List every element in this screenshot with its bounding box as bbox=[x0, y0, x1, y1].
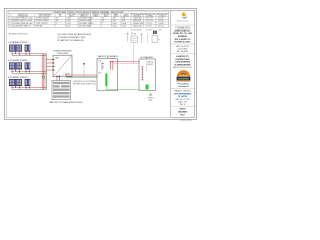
svg-text:GND: GND bbox=[143, 98, 146, 100]
svg-text:SYSTEM W/ ESS: SYSTEM W/ ESS bbox=[175, 59, 190, 61]
svg-text:ACME SOLAR LLC: ACME SOLAR LLC bbox=[174, 30, 191, 33]
junction node J1 bbox=[83, 63, 85, 78]
svg-text:3/4": 3/4" bbox=[102, 20, 105, 22]
sheet block bbox=[178, 109, 187, 117]
table header text bbox=[9, 13, 169, 16]
svg-text:● PV ARRAY STRING 1: ● PV ARRAY STRING 1 bbox=[8, 41, 28, 44]
backup interface red breakers bbox=[110, 61, 114, 70]
backup interface breaker bbox=[102, 62, 104, 70]
conductor schedule table bbox=[8, 11, 169, 27]
inverter input arrows bbox=[53, 59, 55, 71]
PV string 3 panel group A bbox=[9, 79, 22, 86]
title block border bbox=[171, 11, 195, 118]
AC wires inverter to backup interface bbox=[66, 74, 97, 76]
svg-text:PHONE: 555 - 123 - 4567: PHONE: 555 - 123 - 4567 bbox=[173, 32, 192, 35]
main panel breaker column bbox=[141, 66, 143, 81]
svg-text:⇅: ⇅ bbox=[131, 33, 133, 36]
svg-text:PHOENIX, AZ 85001: PHOENIX, AZ 85001 bbox=[175, 40, 191, 43]
title block divider 5 bbox=[171, 106, 195, 108]
svg-text:3/4": 3/4" bbox=[56, 18, 59, 20]
ground wire to main panel bbox=[106, 89, 147, 91]
svg-text:PE #45782: PE #45782 bbox=[178, 95, 187, 98]
svg-text:5 FT 0.1%: 5 FT 0.1% bbox=[146, 23, 154, 25]
svg-text:0.22%: 0.22% bbox=[67, 25, 72, 27]
ground symbol bbox=[147, 98, 153, 101]
main panel ground bar bbox=[146, 85, 149, 90]
utility drop wire bbox=[133, 44, 135, 64]
svg-text:7.5KW INVERTER: 7.5KW INVERTER bbox=[175, 62, 191, 64]
drawing frame inner bbox=[6, 11, 194, 118]
ground wire to backup interface bbox=[66, 77, 105, 79]
legend symbol: service panel bbox=[152, 31, 161, 43]
svg-text:CONDUIT AND CONDUCTOR SCHEDULE: CONDUIT AND CONDUCTOR SCHEDULE WIRING DI… bbox=[52, 11, 124, 14]
PV string 1 panel group B bbox=[25, 45, 31, 52]
svg-text:Professional: Professional bbox=[178, 86, 189, 88]
title block divider 2 bbox=[171, 43, 195, 45]
svg-text:7.5KW (48V): 7.5KW (48V) bbox=[57, 53, 69, 55]
string 1 wiring bbox=[11, 52, 46, 56]
svg-text:ROD: ROD bbox=[154, 98, 157, 100]
backup interface box bbox=[97, 59, 118, 91]
svg-text:120/240V: 120/240V bbox=[147, 64, 153, 66]
contractor label box bbox=[176, 26, 190, 29]
legend symbol: utility meter bbox=[131, 33, 137, 43]
svg-text:0.42%: 0.42% bbox=[67, 18, 72, 20]
inverter AC output terminal bbox=[65, 74, 66, 75]
table row 2 bbox=[9, 19, 165, 22]
svg-text:(ROOF RUN): (ROOF RUN) bbox=[133, 16, 141, 18]
svg-text:BACKUP INTERFACE: BACKUP INTERFACE bbox=[98, 55, 119, 58]
AC wires backup interface to main panel bbox=[111, 61, 139, 63]
title block divider 4 bbox=[171, 88, 195, 90]
svg-text:90 C DC: 90 C DC bbox=[158, 25, 165, 27]
PV string 2 panel group B bbox=[25, 62, 31, 69]
svg-text:1: 1 bbox=[9, 18, 10, 20]
main service panel box bbox=[139, 59, 156, 91]
project info bbox=[176, 45, 189, 53]
main panel feeder wire bbox=[146, 64, 148, 71]
svg-text:4 FT 0.1%: 4 FT 0.1% bbox=[146, 25, 154, 27]
svg-text:2" EMT CONDUIT: 2" EMT CONDUIT bbox=[36, 23, 48, 25]
table row 4 bbox=[9, 24, 165, 27]
svg-text:(16) JINKO 400W SOLAR MODULES: (16) JINKO 400W SOLAR MODULES bbox=[58, 33, 92, 36]
ground node on bus bbox=[42, 76, 44, 78]
svg-text:4521 W DESERT LN: 4521 W DESERT LN bbox=[175, 38, 192, 41]
equipment notes bbox=[58, 33, 92, 42]
svg-text:UTILITY METER: UTILITY METER bbox=[131, 29, 141, 31]
table header second line bbox=[17, 15, 165, 18]
NABCEP badge bbox=[177, 70, 191, 81]
inverter DC output terminals bbox=[56, 76, 57, 77]
svg-text:2: 2 bbox=[9, 20, 10, 22]
svg-text:DIAGRAM: DIAGRAM bbox=[178, 110, 187, 113]
svg-text:● PV ARRAY STRING 2: ● PV ARRAY STRING 2 bbox=[8, 59, 28, 62]
battery storage bbox=[52, 81, 71, 100]
ground wire up into panel bbox=[146, 89, 148, 91]
company logo swoosh bbox=[181, 16, 187, 18]
svg-text:(1) BATTERY STORAGE 48V: (1) BATTERY STORAGE 48V bbox=[58, 39, 85, 42]
svg-text:3: 3 bbox=[9, 23, 10, 25]
svg-text:14.3KWH BATTERY: 14.3KWH BATTERY bbox=[174, 63, 191, 66]
svg-text:PER MFR SPEC SHEET PV-3: PER MFR SPEC SHEET PV-3 bbox=[73, 84, 96, 86]
svg-text:4: 4 bbox=[9, 25, 10, 27]
inverter to battery wires bbox=[56, 77, 58, 81]
svg-text:SunPowerCo: SunPowerCo bbox=[177, 20, 188, 23]
svg-text:ADDRESS: ADDRESS bbox=[178, 35, 188, 38]
svg-text:● PV ARRAY STRING 3: ● PV ARRAY STRING 3 bbox=[8, 76, 28, 79]
contractor info bbox=[173, 30, 192, 44]
bus ground wire bbox=[43, 73, 45, 80]
svg-text:25 FT 0.4%: 25 FT 0.4% bbox=[146, 18, 154, 20]
legend symbol: riser bbox=[140, 33, 142, 43]
svg-text:3/4": 3/4" bbox=[102, 18, 105, 20]
svg-text:0.31%: 0.31% bbox=[67, 23, 72, 25]
svg-text:3/4": 3/4" bbox=[56, 20, 59, 22]
svg-text:BUS: BUS bbox=[98, 73, 101, 75]
PV string 2 panel group A bbox=[9, 62, 22, 69]
string 2 wiring bbox=[11, 69, 46, 73]
PV string 1 panel group A bbox=[9, 45, 22, 52]
svg-text:(CONT): (CONT) bbox=[114, 16, 119, 18]
DC bus wires bbox=[42, 54, 46, 90]
table row 3 bbox=[9, 22, 165, 25]
hybrid inverter U1 bbox=[53, 55, 72, 77]
title block divider 3 bbox=[171, 53, 195, 55]
svg-text:CONTRACTOR: CONTRACTOR bbox=[177, 27, 190, 30]
svg-text:WIRING: WIRING bbox=[180, 109, 187, 111]
table row 1 bbox=[9, 17, 165, 20]
svg-text:3/4" EMT CONDUIT: 3/4" EMT CONDUIT bbox=[36, 18, 50, 20]
svg-text:REV: B: REV: B bbox=[180, 104, 185, 106]
svg-text:CERTIFIED: CERTIFIED bbox=[178, 79, 189, 81]
svg-text:0.65%: 0.65% bbox=[67, 20, 72, 22]
string 3 wiring bbox=[11, 86, 46, 89]
company logo sun bbox=[182, 12, 186, 16]
PV string 3 panel group B bbox=[25, 79, 31, 86]
svg-text:BATTERY STORAGE(LIFEPO4 48V): BATTERY STORAGE(LIFEPO4 48V) bbox=[50, 101, 83, 104]
title block divider 1 bbox=[171, 24, 195, 26]
inverter input wires bbox=[46, 60, 53, 71]
drawn by block bbox=[174, 89, 192, 106]
svg-text:(EGC / GEC SIZE): (EGC / GEC SIZE) bbox=[39, 16, 50, 18]
svg-text:6.40KW DC PV: 6.40KW DC PV bbox=[176, 55, 189, 58]
legend labels bbox=[131, 28, 162, 31]
ground bar to bottom wire bbox=[105, 86, 107, 90]
grounding electrode conductor bbox=[149, 91, 151, 98]
svg-text:PV-WD-04.DWG: PV-WD-04.DWG bbox=[180, 120, 193, 122]
svg-text:(1) HYBRID INVERTER 7.5KW: (1) HYBRID INVERTER 7.5KW bbox=[58, 37, 86, 39]
drawing frame outer bbox=[4, 9, 196, 120]
svg-text:MSP: MSP bbox=[159, 29, 162, 31]
backup interface ground bar bbox=[105, 74, 107, 87]
ground rod node bbox=[149, 94, 152, 96]
legend symbol: utility pole bbox=[126, 33, 129, 42]
system description bbox=[174, 55, 191, 66]
svg-text:10 FT 0.3%: 10 FT 0.3% bbox=[146, 20, 154, 22]
svg-text:90 C DC: 90 C DC bbox=[158, 18, 165, 20]
svg-text:3/4" EMT CONDUIT: 3/4" EMT CONDUIT bbox=[36, 20, 50, 22]
legend symbol: ac disconnect riser bbox=[147, 34, 149, 43]
